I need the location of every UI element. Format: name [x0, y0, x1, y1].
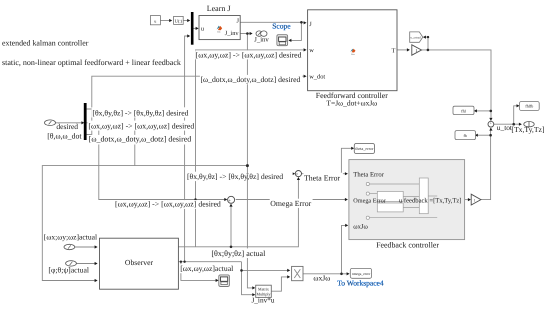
- wire: gain1 out right and down to u_tot sum top: [422, 50, 492, 121]
- svg-text:omega_error: omega_error: [352, 272, 371, 276]
- svg-text:[ωx,ωy,ωz] -> [ωx,ωy,ωz] desir: [ωx,ωy,ωz] -> [ωx,ωy,ωz] desired: [115, 200, 221, 209]
- wire: demux out3 omega_dot desired up (V2) to Feedforward w_dot: [87, 76, 304, 134]
- wire: demux out1 theta desired: [87, 108, 190, 110]
- svg-text:T: T: [391, 47, 395, 54]
- label: omega cross J omega: [313, 274, 332, 283]
- wire: source to reshape: [161, 20, 171, 22]
- label: row3 omega_dot desired: [88, 135, 193, 145]
- block: tag fb: [455, 131, 476, 140]
- wire: J_inv branch left at y=165 to observer in3 (V1): [42, 166, 247, 281]
- svg-text:static, non-linear optimal fee: static, non-linear optimal feedforward +…: [2, 58, 181, 67]
- block: goto theta_error: [354, 143, 374, 153]
- wire: branch up to omega sum bottom (V6): [230, 204, 232, 246]
- block: goto oval J_inv: [254, 31, 269, 43]
- label: Omega Error: [270, 199, 313, 208]
- block: sum theta error: [295, 171, 301, 179]
- label: row2 omega desired: [88, 121, 195, 131]
- wire: theta desired feed to theta sum: [196, 173, 293, 175]
- wire: u_tot sum out to outport: [494, 123, 521, 125]
- svg-text:Scope: Scope: [272, 22, 291, 31]
- wire: branch left to fb tag: [477, 134, 491, 136]
- svg-text:Feedback controller: Feedback controller: [376, 241, 439, 250]
- ARROWHEADS: [81, 19, 522, 296]
- svg-text:[θx,θy,θz] -> [θx,θy,θz] desir: [θx,θy,θz] -> [θx,θy,θz] desired: [92, 109, 188, 118]
- block: outport oval Tx Ty Tz: [511, 122, 544, 134]
- svg-text:Learn J: Learn J: [207, 4, 231, 13]
- wire: omega actual up to mux in2 (V4): [185, 36, 189, 262]
- svg-text:fb: fb: [464, 133, 467, 138]
- label: row1 theta desired: [92, 107, 192, 117]
- svg-text:J_inv: J_inv: [225, 30, 240, 37]
- svg-text:[ω_dotx,ω_doty,ω_dotz] desired: [ω_dotx,ω_doty,ω_dotz] desired: [89, 135, 192, 144]
- block: tag ffd: [453, 106, 474, 114]
- svg-text:[ωx;ωy;ωz]actual: [ωx;ωy;ωz]actual: [44, 233, 97, 242]
- svg-text:[ωx,ωy,ωz] -> [ωx,ωy,ωz] desir: [ωx,ωy,ωz] -> [ωx,ωy,ωz] desired: [196, 50, 302, 59]
- svg-text:To Workspace4: To Workspace4: [337, 278, 384, 287]
- SIGNAL LABELS (white backed): [2, 38, 343, 282]
- svg-text:1: 1: [474, 198, 476, 202]
- svg-text:extended kalman controller: extended kalman controller: [2, 38, 89, 47]
- block: Observer subsystem: [100, 238, 179, 289]
- wire: branch up-left to T_actual tag: [424, 37, 428, 50]
- wire: observer in1: [75, 246, 97, 248]
- block: reshape U(:): [174, 16, 184, 24]
- wire: branch up to ffdfb tag: [514, 106, 519, 124]
- wire: observer in2: [76, 263, 96, 265]
- wire: theta actual from observer to theta sum bottom: [178, 178, 298, 247]
- wire: demux out2 omega desired down (V3) to omega sum: [87, 123, 226, 200]
- wire: desired inport to demux: [56, 122, 83, 124]
- wire: omega actual branch to cross product in1: [242, 269, 290, 271]
- block: To Workspace4: [337, 268, 384, 287]
- feedback controller inner icon: [366, 178, 437, 219]
- wire: branch up to feedback controller in3: [342, 225, 348, 273]
- wire: omega sum out to feedback controller in2: [236, 199, 346, 201]
- svg-text:u_actual: u_actual: [411, 35, 421, 39]
- block: gain1: [412, 45, 422, 55]
- svg-text:u feedback =[Tx,Ty,Tz]: u feedback =[Tx,Ty,Tz]: [399, 197, 462, 204]
- wire: theta sum out to feedback controller in1: [302, 173, 347, 175]
- label: omega desired mid: [114, 200, 224, 209]
- wire: J_inv long vertical (V8) to Matrix Multiply in1: [247, 34, 253, 288]
- svg-text:w: w: [309, 47, 314, 54]
- block: Feedforward controller: [308, 10, 397, 108]
- wire: theta desired drop (V9): [134, 109, 136, 166]
- wire: branch down to scope2: [181, 262, 218, 281]
- svg-text:[θx;θy;θz] actual: [θx;θy;θz] actual: [211, 249, 266, 258]
- svg-text:Theta Error: Theta Error: [353, 171, 384, 178]
- block: mux bar: [191, 12, 194, 45]
- svg-text:[ωx,ωy,ωz] -> [ωx,ωy,ωz] desir: [ωx,ωy,ωz] -> [ωx,ωy,ωz] desired: [88, 122, 194, 131]
- svg-text:ωxJω: ωxJω: [313, 274, 330, 283]
- wire: J branch down to Scope: [290, 22, 302, 40]
- wire: omega actual from observer: [178, 261, 241, 263]
- block: matrix multiply J_inv*u: [251, 285, 274, 305]
- wire: feedback controller out to gain2: [465, 199, 470, 201]
- label: omega actual: [179, 264, 235, 273]
- svg-text:Observer: Observer: [125, 258, 154, 267]
- wire: mux out to Learn J u: [193, 27, 197, 29]
- svg-text:T=Jω_dot+ωxJω: T=Jω_dot+ωxJω: [326, 98, 377, 107]
- wire: Learn J J out to Feedforward J in: [240, 21, 303, 23]
- block: demux bar: [84, 103, 87, 140]
- wire: branch left to ffd tag: [475, 110, 491, 112]
- svg-text:[ωx,ωy,ωz]actual: [ωx,ωy,ωz]actual: [180, 264, 233, 273]
- label: theta desired mid: [186, 172, 293, 181]
- block: sum u_tot: [488, 121, 513, 133]
- wire: reshape to mux in1: [183, 20, 188, 22]
- block: inport oval phi theta psi actual: [48, 261, 89, 275]
- wire: Feedforward T out to gain1: [397, 49, 409, 51]
- wire: Matrix Multiply out to cross product in2: [271, 277, 289, 291]
- svg-text:Theta Error: Theta Error: [304, 173, 341, 182]
- svg-text:1: 1: [415, 48, 417, 53]
- svg-text:theta_error: theta_error: [355, 146, 374, 151]
- block: gain2: [471, 194, 481, 205]
- block: sum omega error: [228, 196, 235, 205]
- block: inport oval desired: [45, 120, 83, 141]
- wire: gain2 out up to u_tot sum bottom: [481, 128, 491, 200]
- svg-text:desired: desired: [56, 122, 78, 131]
- matlab icon in Learn J: [217, 26, 223, 34]
- label: Theta Error: [303, 173, 343, 183]
- svg-text:[ω_dotx,ω_doty,ω_dotz] desired: [ω_dotx,ω_doty,ω_dotz] desired: [201, 75, 301, 84]
- svg-text:[θx,θy,θz] -> [θx,θy,θz] desir: [θx,θy,θz] -> [θx,θy,θz] desired: [187, 172, 283, 181]
- label: theta actual: [211, 248, 270, 258]
- svg-text:Omega Error: Omega Error: [353, 197, 385, 204]
- wire: cross product out to To Workspace4: [303, 273, 349, 275]
- block: tag ffdfb: [520, 102, 540, 111]
- label: omega_dot desired near FF: [200, 75, 303, 84]
- svg-text:J_inv*u: J_inv*u: [251, 296, 274, 305]
- svg-text:ffdfb: ffdfb: [525, 104, 533, 109]
- block: Scope2 (bottom): [219, 275, 230, 287]
- svg-text:ffd: ffd: [461, 108, 466, 113]
- wire: omega desired up (V5) to Feedforward w: [196, 50, 304, 247]
- matlab icon in Feedforward: [350, 49, 355, 56]
- svg-text:J_inv: J_inv: [254, 36, 269, 43]
- label: omega desired near FF: [195, 50, 303, 59]
- block: cross product X: [292, 266, 303, 280]
- svg-text:U(:): U(:): [175, 19, 183, 24]
- wire: Learn J J_inv out to goto oval: [240, 33, 250, 35]
- block: constant u source: [150, 16, 160, 25]
- block: inport oval omega actual: [44, 233, 97, 250]
- block: goto tag T_actual: [410, 32, 423, 42]
- svg-text:w_dot: w_dot: [309, 74, 325, 81]
- svg-text:[θ,ω,ω_dot: [θ,ω,ω_dot: [47, 131, 82, 140]
- block: Scope (top): [272, 22, 291, 46]
- svg-text:ωxJω: ωxJω: [353, 224, 368, 231]
- wire: omega actual down (V7) to Matrix Multiply in2: [242, 262, 254, 295]
- svg-text:[φ;θ;ψ]actual: [φ;θ;ψ]actual: [48, 265, 89, 274]
- svg-text:[Tx,Ty,Tz]: [Tx,Ty,Tz]: [511, 125, 544, 134]
- wire: branch up to theta_error goto: [341, 148, 352, 173]
- block: Feedback controller subsystem: [349, 160, 465, 250]
- svg-text:Omega Error: Omega Error: [270, 199, 311, 208]
- block: Learn J subsystem: [199, 4, 240, 40]
